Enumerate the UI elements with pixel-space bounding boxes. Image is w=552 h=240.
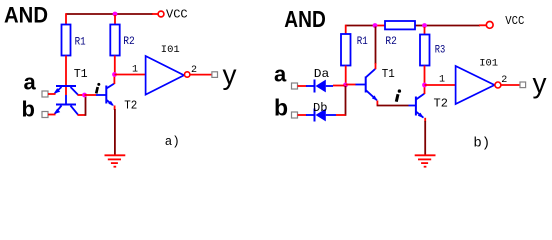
T1 emitter arrow (372, 95, 378, 100)
wire dot2 down to R3 (right) (424, 27, 426, 35)
output pin y terminal (left) (212, 72, 218, 78)
svg-text:I01: I01 (479, 57, 498, 69)
resistor R2 horizontal (right) (385, 21, 415, 29)
svg-text:Da: Da (314, 67, 330, 81)
node junction dot T1 collector (left) (82, 93, 87, 98)
wire node K to T1 base (right) (346, 84, 356, 86)
svg-text:T1: T1 (382, 67, 395, 81)
wire R1 bottom to T1 base (left) (65, 56, 67, 96)
label current i (left) (96, 83, 100, 94)
input pin a terminal (right) (292, 83, 298, 89)
inverter bubble (left) (185, 72, 190, 77)
VCC terminal circle (right) (486, 22, 493, 29)
resistor R2 (left) (110, 25, 119, 56)
node junction dot diode node (right) (343, 83, 348, 88)
T1 base bar lower (56, 104, 76, 106)
wire node to T2 base (left) (85, 94, 97, 96)
Da cathode bar (314, 80, 316, 93)
Db anode lead (306, 114, 315, 116)
wire T2 collector up to node (right) (424, 85, 426, 94)
svg-text:b: b (274, 95, 288, 121)
wire inverter output (right) (501, 84, 521, 86)
Db cathode bar (314, 109, 316, 122)
T1 collector 2 line (71, 106, 79, 115)
wire inverter output (left) (190, 74, 212, 76)
wire node to inverter input (left) (115, 74, 147, 76)
wire R3 bottom to node (right) (424, 66, 426, 86)
svg-text:R2: R2 (385, 36, 397, 48)
svg-text:a): a) (165, 135, 180, 149)
T1 collector line (366, 69, 375, 77)
wire pin b to emitter (left) (48, 114, 56, 116)
T2 emitter line (107, 100, 113, 105)
svg-text:T1: T1 (74, 67, 88, 81)
T1 collector 1 line (71, 87, 79, 95)
T2 emitter arrow (108, 101, 114, 106)
svg-text:1: 1 (439, 74, 445, 85)
svg-text:AND: AND (284, 6, 326, 32)
wire node K down to Db (right) (345, 86, 347, 116)
svg-text:Db: Db (313, 101, 328, 115)
transistor T1 multi-emitter (left) (54, 86, 79, 115)
wire rail dot1 to R2 (right) (375, 25, 385, 27)
transistor T2 (right) (409, 94, 425, 119)
wire VCC rail segment R1 to dot1 (right) (346, 25, 375, 27)
wire T2 emitter down (left) (114, 106, 116, 111)
svg-text:b): b) (473, 135, 490, 151)
wire R2 bottom to node (left) (114, 56, 116, 75)
svg-text:I01: I01 (161, 44, 180, 56)
node junction dot1 T1 collector at rail (right) (373, 23, 378, 28)
svg-text:a: a (24, 70, 37, 95)
wire emitter to ground (left) (114, 109, 116, 155)
T2 base lead (96, 94, 106, 96)
T1 base lead (356, 84, 366, 86)
wire T1 emitter down (right) (376, 101, 378, 106)
wire R1 bottom to node K (right) (345, 66, 347, 86)
wire T1 collector up to rail dot1 (right) (375, 27, 377, 65)
wire rail R2 to dot2 (right) (415, 25, 425, 27)
svg-text:AND: AND (4, 2, 48, 27)
input pin a terminal (left) (42, 91, 48, 97)
T1 emitter 1 arrow (54, 88, 61, 94)
node junction dot T2 collector (left) (112, 72, 117, 77)
wire Db to node K riser (right) (336, 114, 346, 116)
wire collector1 to node (left) (78, 94, 85, 96)
transistor T2 (left) (96, 84, 114, 106)
wire T1 collector red segment (right) (375, 63, 377, 69)
wire pin a to emitter (left) (48, 93, 56, 95)
wire node to inverter input (right) (425, 84, 457, 86)
T2 base bar (105, 86, 107, 104)
inverter bubble (right) (495, 82, 501, 88)
T1 emitter 2 line (55, 106, 62, 114)
T1 base bar upper (56, 85, 76, 87)
output pin y terminal (right) (520, 82, 526, 88)
ground symbol (left) (105, 155, 126, 166)
svg-text:b: b (22, 97, 35, 122)
svg-text:T2: T2 (124, 99, 137, 113)
T1 emitter 1 line (55, 87, 62, 93)
T1 emitter 2 arrow (54, 109, 61, 115)
wire pin a to Da (right) (298, 85, 307, 87)
svg-text:VCC: VCC (166, 8, 188, 22)
Da anode lead (306, 85, 315, 87)
T1 emitter line (366, 90, 377, 100)
transistor T1 (right) (356, 69, 378, 101)
op-amp/inverter I01 triangle (left) (146, 56, 184, 95)
input pin b terminal (left) (42, 112, 48, 118)
wire pin b to Db (right) (298, 114, 307, 116)
resistor R1 (right) (341, 34, 351, 66)
op-amp/inverter I01 triangle (right) (456, 66, 495, 104)
resistor R3 (right) (420, 35, 430, 66)
Db triangle (316, 109, 326, 122)
wire rail dot2 to VCC terminal (right) (425, 25, 481, 27)
T2 emitter line (416, 112, 423, 118)
wire dot to R2 top (left) (114, 15, 116, 25)
svg-text:y: y (223, 59, 237, 90)
node junction dot above R2 (left) (113, 12, 118, 17)
T2 collector line (416, 94, 424, 100)
T2 collector line (107, 84, 115, 89)
Da triangle (316, 80, 326, 93)
node junction dot T2 collector (right) (422, 83, 427, 88)
svg-text:VCC: VCC (505, 14, 524, 28)
ground symbol (right) (415, 155, 436, 166)
T1 base link between bars (65, 95, 67, 105)
wire rail to R1 top (left) (65, 13, 67, 24)
node junction dot2 R3 top at rail (right) (422, 23, 427, 28)
svg-text:R2: R2 (123, 36, 135, 48)
wire red stub to VCC terminal (left) (152, 13, 158, 15)
svg-text:R1: R1 (75, 36, 86, 48)
svg-text:T2: T2 (434, 97, 448, 111)
svg-text:1: 1 (132, 65, 138, 76)
diode Da (right) (306, 80, 333, 93)
wire Da to node K (right) (333, 85, 345, 87)
resistor R1 (left) (62, 25, 71, 56)
wire red stub to VCC terminal (right) (479, 24, 486, 26)
wire T2 collector up to node (left) (113, 75, 115, 85)
wire VCC rail (left) (66, 13, 153, 15)
svg-text:R3: R3 (435, 45, 446, 57)
label current i (right) (396, 89, 401, 101)
Db lead out (326, 114, 336, 116)
Da lead to node (326, 85, 333, 87)
wire T1 emitter to T2 base (right) (377, 105, 409, 107)
T2 base bar (415, 97, 417, 116)
wire T2 emitter down (right) (424, 118, 426, 122)
wire collector2 riser (left) (85, 95, 87, 116)
VCC terminal circle (left) (158, 11, 164, 17)
input pin b terminal (right) (292, 112, 298, 118)
T2 emitter arrow (418, 113, 424, 119)
svg-text:R1: R1 (357, 36, 368, 48)
diode Db (right) (306, 109, 336, 122)
wire collector2 horizontal (left) (78, 114, 86, 116)
wire emitter to ground (right) (424, 121, 426, 155)
T1 base bar (365, 77, 367, 93)
T2 base lead (409, 105, 416, 107)
svg-text:a: a (274, 62, 287, 87)
wire rail corner down to R1 (right) (345, 25, 347, 34)
svg-text:y: y (533, 67, 547, 98)
